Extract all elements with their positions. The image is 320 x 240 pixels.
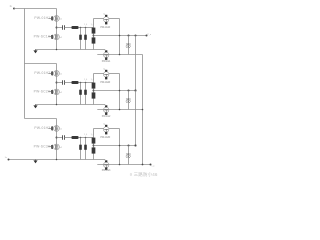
capacitor C34 snubber upper — [92, 138, 96, 144]
transistor Q3D — [104, 160, 109, 170]
wire row3 loop top right — [109, 128, 120, 130]
svg-text:x1: x1 — [60, 74, 62, 76]
wire row1 loop top left — [94, 18, 104, 20]
wire row2 loop bottom — [97, 109, 142, 111]
wire row2 link down — [135, 91, 137, 146]
inductor L1 ferrite — [71, 26, 78, 29]
wire row3 midpoint to cap — [57, 137, 63, 139]
wire row2 low gate lead — [48, 91, 51, 93]
svg-text:x2: x2 — [60, 37, 62, 39]
power flag row2 — [33, 105, 37, 109]
transistor Q2D — [104, 105, 109, 115]
svg-text:1g: 1g — [103, 124, 105, 126]
svg-text:1g: 1g — [104, 49, 106, 51]
wire row3 loop top left — [94, 128, 104, 130]
wire row3 resistor branch — [128, 146, 130, 165]
node row3 R tap — [128, 145, 130, 147]
capacitor C33 shunt — [84, 145, 87, 150]
inductor L2 ferrite — [71, 81, 78, 84]
svg-text:¤ 三路防小46: ¤ 三路防小46 — [130, 171, 158, 178]
node row2 loop bottom junction — [119, 109, 121, 111]
resistor R1 2R2 — [126, 42, 131, 47]
wire row1 midpoint to cap — [57, 27, 63, 29]
svg-text:x1: x1 — [60, 19, 62, 21]
wire row1 link down — [135, 36, 137, 91]
svg-text:x2: x2 — [60, 147, 62, 149]
wire row3 loop right vertical — [119, 129, 121, 165]
power flag row3 — [33, 160, 37, 164]
wire left supply rail — [24, 9, 26, 119]
wire row3 output — [94, 145, 136, 147]
node row2 bottom left — [56, 104, 58, 106]
wire row3 bottom — [35, 159, 105, 161]
transistor Q3B (PW-SC3A) — [52, 144, 60, 150]
wire row3 half-bridge vertical — [56, 119, 58, 160]
node row3 loop bottom junction — [119, 164, 121, 166]
node row2 shunt2 tap — [85, 82, 87, 84]
svg-text:PW-01H1: PW-01H1 — [34, 16, 50, 20]
svg-text:PW-1G2F: PW-1G2F — [100, 81, 110, 84]
node row2 link tap — [135, 90, 137, 92]
inductor L3 ferrite — [71, 136, 78, 139]
transistor Q3C — [104, 125, 109, 135]
wire row1 inductor to snubber — [79, 27, 94, 29]
wire row2 cap to inductor — [65, 82, 72, 84]
wire row3 loop bottom — [97, 164, 150, 166]
transistor Q3A (PW-01H3) — [52, 125, 60, 131]
transistor Q2A (PW-01H2) — [52, 71, 60, 77]
node row3 link tap — [135, 145, 137, 147]
wire row2 loop right vertical — [119, 74, 121, 110]
wire row2 inductor to snubber — [79, 82, 94, 84]
wire row3 low gate lead — [48, 146, 51, 148]
transistor Q1C — [104, 15, 109, 25]
wire row2 bottom — [35, 104, 105, 106]
capacitor C24 snubber upper — [92, 83, 96, 89]
svg-text:2R2: 2R2 — [126, 42, 131, 46]
svg-text:PW-01H3: PW-01H3 — [34, 126, 50, 130]
svg-text:PW-01H2: PW-01H2 — [34, 71, 50, 75]
resistor R2 2R2 — [126, 97, 131, 102]
svg-text:PW-1G3: PW-1G3 — [102, 169, 111, 172]
capacitor C32 shunt — [79, 145, 82, 150]
node row1 phase midpoint — [56, 27, 58, 29]
svg-text:1g: 1g — [103, 14, 105, 16]
node row2 R tap — [128, 90, 130, 92]
capacitor C13 shunt — [84, 35, 87, 40]
capacitor C11 series — [63, 25, 65, 30]
capacitor C23 shunt — [84, 90, 87, 95]
capacitor C14 snubber upper — [92, 28, 96, 34]
wire row1 loop bottom — [97, 54, 142, 56]
svg-text:PW-SC1A: PW-SC1A — [34, 35, 51, 39]
wire row3 snubber vertical — [93, 129, 95, 160]
wire row1 snubber vertical — [93, 19, 95, 50]
wire far right bus — [142, 55, 144, 165]
wire row3 top — [25, 118, 57, 120]
wire row2 snubber vertical — [93, 74, 95, 105]
wire row1 shunt2 branch — [85, 28, 87, 50]
node supply input — [13, 8, 15, 10]
wire row3 cap to inductor — [65, 137, 72, 139]
node row2 snubber mid — [93, 90, 95, 92]
node row3 snubber mid — [93, 145, 95, 147]
node row2 link arrival — [135, 90, 137, 92]
wire bottom left extension — [9, 159, 36, 161]
wire row2 loop top left — [94, 73, 104, 75]
wire row3 inductor to snubber — [79, 137, 94, 139]
wire row1 cap to inductor — [65, 27, 72, 29]
node row1 R tap — [128, 35, 130, 37]
capacitor C35 snubber lower — [92, 147, 96, 153]
wire row2 midpoint to cap — [57, 82, 63, 84]
svg-text:PW-1G1F: PW-1G1F — [100, 26, 110, 29]
svg-text:1g: 1g — [104, 159, 106, 161]
svg-text:1g: 1g — [103, 69, 105, 71]
wire row1 high gate lead — [48, 18, 51, 20]
wire row1 low gate lead — [48, 36, 51, 38]
svg-text:PW-SC3A: PW-SC3A — [34, 145, 51, 149]
node bottom left terminal — [8, 159, 10, 161]
svg-text:PW-1G2: PW-1G2 — [102, 115, 111, 118]
wire row2 loop top right — [109, 73, 120, 75]
node right bus bottom — [142, 164, 144, 166]
node bottom right terminal — [150, 164, 152, 166]
wire row1 shunt1 branch — [80, 28, 82, 50]
wire row3 shunt1 branch — [80, 138, 82, 160]
capacitor C22 shunt — [79, 90, 82, 95]
svg-text:PW-SC2A: PW-SC2A — [34, 90, 51, 94]
node row3 link arrival — [135, 145, 137, 147]
transistor Q1D — [104, 50, 109, 60]
power flag row1 — [33, 50, 37, 54]
node row1 link tap — [135, 35, 137, 37]
svg-text:x2: x2 — [60, 92, 62, 94]
node row2 phase midpoint — [56, 82, 58, 84]
capacitor C21 series — [63, 80, 65, 85]
wire row2 resistor branch — [128, 91, 130, 110]
node row1 shunt2 tap — [85, 27, 87, 29]
wire row1 bottom — [35, 49, 105, 51]
node row1 shunt1 tap — [80, 27, 82, 29]
node row3 shunt2 tap — [85, 137, 87, 139]
node row2 shunt1 tap — [80, 82, 82, 84]
wire row1 loop top right — [109, 18, 120, 20]
wire row2 shunt1 branch — [80, 83, 82, 105]
transistor Q1A (PW-01H1) — [52, 16, 60, 22]
resistor R3 2R2 — [126, 152, 131, 157]
wire row1 half-bridge vertical — [56, 9, 58, 50]
wire row2 half-bridge vertical — [56, 64, 58, 105]
wire row1 resistor branch — [128, 36, 130, 55]
wire row1 loop right vertical — [119, 19, 121, 55]
wire row2 shunt2 branch — [85, 83, 87, 105]
wire row2 high gate lead — [48, 73, 51, 75]
svg-text:2R2: 2R2 — [126, 97, 131, 101]
transistor Q2C — [104, 70, 109, 80]
wire row2 top — [25, 63, 57, 65]
wire row2 output — [94, 90, 136, 92]
node row3 phase midpoint — [56, 137, 58, 139]
svg-text:PW-1G1: PW-1G1 — [102, 60, 111, 63]
capacitor C15 snubber lower — [92, 37, 96, 43]
node right bus row2 — [142, 109, 144, 111]
wire row3 shunt2 branch — [85, 138, 87, 160]
node row1 output x right vertical — [119, 35, 121, 37]
wire row3 high gate lead — [48, 128, 51, 130]
node row1 loop bottom junction — [119, 54, 121, 56]
node row3 bottom left — [56, 159, 58, 161]
svg-text:PW-1G3F: PW-1G3F — [100, 136, 110, 139]
node row1 bottom left — [56, 49, 58, 51]
wire row1 top — [14, 8, 57, 10]
node row3 output x right vertical — [119, 145, 121, 147]
transistor Q2B (PW-SC2A) — [52, 89, 60, 95]
svg-text:x1: x1 — [60, 129, 62, 131]
capacitor C12 shunt — [79, 35, 82, 40]
capacitor C31 series — [63, 135, 65, 140]
svg-text:2R2: 2R2 — [126, 152, 131, 156]
capacitor C25 snubber lower — [92, 92, 96, 98]
node row1 output terminal — [146, 35, 148, 37]
transistor Q1B (PW-SC1A) — [52, 34, 60, 40]
svg-text:1g: 1g — [104, 104, 106, 106]
node row3 shunt1 tap — [80, 137, 82, 139]
node row2 output x right vertical — [119, 90, 121, 92]
node row1 snubber mid — [93, 35, 95, 37]
wire row1 output — [94, 35, 147, 37]
